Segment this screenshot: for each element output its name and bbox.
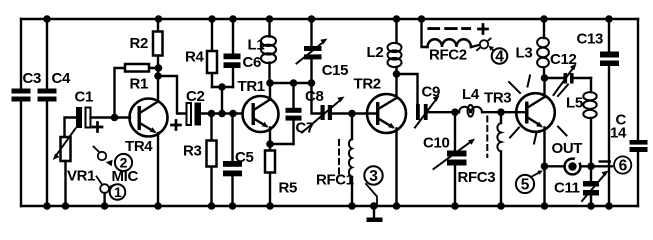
capacitor C1 [76, 107, 102, 132]
wire C11 branch [590, 166, 592, 206]
capacitor C4 [38, 89, 57, 102]
wire L2/collector to C9 [397, 74, 418, 104]
svg-text:MIC: MIC [112, 168, 139, 185]
wire R5 to ground [269, 173, 271, 207]
trimmer capacitor C11 [582, 171, 609, 202]
transistor TR1 [243, 96, 279, 132]
inductor RFC1 [339, 139, 352, 178]
inductor RFC2 [427, 27, 471, 47]
svg-text:R2: R2 [130, 35, 148, 52]
svg-text:TR1: TR1 [238, 78, 265, 95]
wire C6 branch [232, 19, 234, 87]
svg-text:C9: C9 [422, 84, 440, 101]
wire R1 leads [115, 68, 159, 118]
svg-text:C13: C13 [577, 31, 603, 48]
wire TR2 emitter [395, 129, 397, 207]
terminal circle 1 [110, 184, 126, 200]
wire TR4 collector to C2 [158, 76, 187, 114]
terminal circle 2 [115, 154, 132, 171]
mic terminal 1 [97, 177, 115, 207]
resistor R3 [207, 141, 217, 167]
capacitor C6 [224, 54, 241, 69]
trimmer capacitor C15 [297, 39, 328, 64]
pointer tail terminal 3 [366, 184, 377, 205]
wire C9 to L4 [428, 111, 459, 113]
svg-text:L2: L2 [367, 44, 384, 61]
svg-text:1: 1 [114, 184, 122, 200]
wire C8 to TR2 base [332, 112, 377, 114]
wire C1 to VR1 [65, 118, 77, 138]
svg-text:RFC3: RFC3 [458, 169, 496, 186]
svg-text:TR4: TR4 [125, 138, 153, 155]
svg-text:C5: C5 [235, 149, 253, 166]
wire bottom ground rail [21, 205, 638, 207]
wire L4 to TR3 base [482, 111, 525, 113]
terminal circle 6 [614, 156, 631, 173]
terminal circle 3 [364, 166, 382, 184]
svg-text:R5: R5 [279, 180, 297, 197]
wire RFC1 branch [351, 114, 353, 207]
transistor TR4 [130, 99, 168, 137]
inductor L3 [537, 19, 549, 78]
svg-text:RFC2: RFC2 [429, 47, 467, 64]
svg-text:VR1: VR1 [67, 168, 95, 185]
svg-text:R1: R1 [130, 76, 148, 93]
wire collector node to C12 [545, 77, 564, 79]
inductor L4 [459, 105, 482, 117]
wire R3 branch [210, 114, 212, 207]
svg-text:C12: C12 [550, 51, 576, 68]
capacitor C3 [12, 89, 31, 102]
wire C5 branch [231, 114, 233, 207]
inductor L2 [388, 19, 402, 74]
svg-text:OUT: OUT [552, 140, 583, 157]
pointer arrow terminal 4 [492, 49, 495, 52]
svg-text:C15: C15 [322, 62, 348, 79]
wire RFC2 feed [422, 19, 428, 47]
svg-text:RFC1: RFC1 [316, 172, 354, 189]
wire VR1 to ground rail [64, 161, 66, 206]
trimmer capacitor C12 [554, 64, 577, 96]
svg-text:C2: C2 [186, 88, 204, 105]
wire right border (C14 branch) [637, 19, 639, 206]
pointer tail terminal 5 [530, 172, 540, 178]
inductor L5 [583, 78, 596, 166]
svg-text:R3: R3 [183, 143, 201, 160]
wire C7 branch [292, 83, 294, 144]
resistor R1 [125, 64, 149, 72]
wire TR4 collector [157, 68, 159, 102]
svg-text:TR3: TR3 [484, 90, 511, 107]
capacitor C5 [223, 161, 242, 176]
svg-text:R4: R4 [185, 49, 204, 66]
wire TR4 emitter to ground [157, 133, 159, 206]
wire C15 branch [312, 19, 321, 114]
potentiometer VR1 [53, 129, 76, 162]
antenna break dash [599, 160, 612, 162]
wire C2 to TR1 base [201, 112, 243, 114]
svg-text:TR2: TR2 [354, 76, 381, 93]
svg-text:C3: C3 [23, 70, 41, 87]
wire top supply rail [21, 18, 638, 20]
terminal circle 5 [516, 175, 534, 193]
wire C13 branch [608, 19, 610, 206]
wire emitter to C7 [270, 143, 294, 145]
wire TR2 collector [395, 74, 397, 98]
svg-text:2: 2 [120, 155, 128, 171]
svg-text:5: 5 [521, 177, 530, 194]
trimmer capacitor C9 [415, 96, 440, 128]
svg-text:6: 6 [619, 158, 628, 175]
svg-text:14: 14 [610, 125, 627, 142]
svg-text:3: 3 [369, 168, 378, 185]
svg-text:C6: C6 [243, 54, 261, 71]
OUT terminal [565, 157, 581, 175]
transistor TR3 [509, 76, 568, 144]
wire TR1 emitter [269, 128, 271, 151]
inductor L1 [261, 19, 276, 83]
svg-text:L4: L4 [462, 86, 480, 103]
battery + terminal (4) [477, 25, 491, 51]
wire TR3 emitter to ground [543, 128, 545, 207]
trimmer capacitor C10 [434, 139, 476, 170]
wire C10 branch [454, 112, 456, 206]
svg-text:C4: C4 [52, 70, 71, 87]
svg-text:C11: C11 [554, 180, 580, 197]
capacitor C14 [630, 140, 648, 152]
svg-text:C8: C8 [305, 88, 323, 105]
inductor RFC3 [487, 117, 501, 158]
capacitor C13 [600, 52, 619, 67]
svg-text:4: 4 [495, 49, 504, 66]
svg-text:L3: L3 [516, 45, 533, 62]
ground symbol [367, 206, 383, 222]
svg-text:C10: C10 [423, 135, 449, 152]
wire left border (C3 branch) [20, 19, 22, 206]
wire C4 branch [46, 19, 48, 206]
svg-text:L5: L5 [566, 95, 583, 112]
wire C12 to L5 [574, 77, 591, 79]
wire R4/C6 junction to base [212, 87, 233, 114]
wire RFC3 branch [500, 112, 502, 206]
transistor TR2 [367, 94, 406, 133]
wire TR1 collector node [270, 83, 312, 100]
wire C1 to TR4 base [91, 116, 131, 118]
trimmer capacitor C8 [302, 97, 345, 133]
wire OUT line [545, 165, 613, 167]
svg-text:C1: C1 [75, 89, 93, 106]
resistor R5 [265, 151, 275, 173]
svg-text:C7: C7 [296, 120, 314, 137]
resistor R4 [207, 51, 217, 73]
terminal circle 4 [492, 48, 508, 64]
capacitor C7 [286, 108, 302, 121]
capacitor C2 [172, 103, 202, 130]
svg-text:L1: L1 [248, 37, 265, 54]
resistor R2 [153, 19, 163, 68]
mic terminal 2 [94, 147, 113, 167]
wire TR3 collector [543, 78, 545, 97]
wire R4 branch [211, 19, 213, 87]
wire RFC2 to battery terminal [471, 45, 480, 47]
